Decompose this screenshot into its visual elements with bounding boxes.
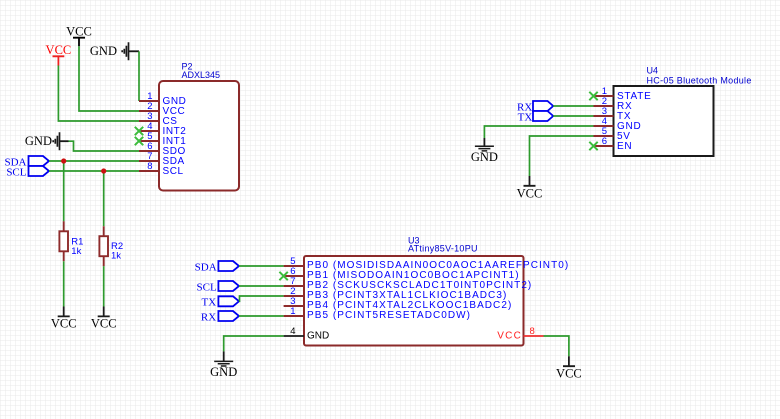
wire junction to R1 [63,161,65,221]
wire SDA to P2 pin7 [49,160,139,162]
junction on SCL [101,168,106,173]
power flag VCC (under R1) [51,307,77,331]
svg-text:GND: GND [25,134,52,148]
wire VCC(red) to P2 pin3 [58,66,139,122]
svg-text:GND: GND [90,44,117,58]
resistor R1 1k [59,221,83,261]
svg-text:VCC: VCC [497,330,522,341]
wire U3 pin8 to VCC [544,336,569,356]
power flag VCC (under R2) [91,307,117,331]
wire R1 to VCC [63,261,65,306]
power flag VCC (red) [46,43,72,66]
svg-text:SCL: SCL [197,281,217,293]
svg-text:HC-05 Bluetooth Module: HC-05 Bluetooth Module [647,76,752,86]
svg-text:PB5 (PCINT5RESETADC0DW): PB5 (PCINT5RESETADC0DW) [307,310,471,321]
svg-text:VCC: VCC [51,317,77,331]
svg-text:GND: GND [307,330,329,341]
svg-text:VCC: VCC [66,24,92,38]
svg-text:1: 1 [290,306,295,317]
svg-text:6: 6 [602,136,607,147]
netflag TX (U4) [518,111,554,123]
no-connect X on P2 pin4 [135,127,143,135]
wire U3 pin4 to GND [224,336,284,351]
svg-text:4: 4 [290,326,295,337]
netflag SCL [6,166,49,178]
power flag VCC (under U4 pin5) [517,176,543,200]
wire SCL to P2 pin8 [49,170,139,172]
netflag RX (U3) [201,311,239,323]
wire RX to U3 pin1 [239,315,284,317]
power flag VCC (under U3 pin8) [556,356,582,380]
svg-text:TX: TX [518,111,533,123]
wire GND(top) to P2 pin1 [138,51,140,101]
no-connect X on U4 pin1 [589,92,597,100]
pin 4 stub (black) [284,335,304,337]
svg-text:1k: 1k [71,246,81,257]
svg-text:SCL: SCL [6,166,26,178]
wire U4 pin4 to GND [484,126,593,138]
svg-text:VCC: VCC [46,43,72,57]
no-connect X on U4 pin6 [589,142,597,150]
svg-text:VCC: VCC [556,367,582,381]
IC P2 ADXL345 [139,62,239,191]
pin 8 stub (red) [524,335,544,337]
svg-text:EN: EN [617,141,632,152]
svg-text:TX: TX [202,296,217,308]
netflag TX (U3) [202,296,239,308]
wire RX to U4 pin2 [553,105,593,107]
no-connect X on P2 pin5 [135,137,143,145]
svg-text:VCC: VCC [91,317,117,331]
svg-text:1k: 1k [111,251,121,262]
svg-text:ADXL345: ADXL345 [182,70,221,80]
svg-text:8: 8 [530,326,535,337]
junction on SDA [61,158,66,163]
svg-text:GND: GND [210,365,237,379]
IC U3 ATtiny85V-10PU [284,236,570,346]
wire R2 to VCC [103,266,105,306]
power flag VCC (black, top) [66,24,92,46]
netflag SDA [4,156,49,168]
wire SDA to U3 pin5 [239,265,284,267]
wire GND to P2 pin6 SDO [69,141,140,151]
wire junction to R2 [103,171,105,226]
wire U4 pin5 to VCC [530,136,594,176]
IC U4 HC-05 Bluetooth Module [594,66,752,157]
netflag SDA (U3) [195,261,239,273]
netflag SCL (U3) [197,281,239,293]
svg-text:GND: GND [471,150,498,164]
svg-text:SCL: SCL [163,166,184,177]
wire TX to U3 pin2 [239,296,284,301]
ground GND (under U4 pin4) [471,138,498,164]
ground GND (mid-left, rotated earth) [25,132,69,150]
resistor R2 1k [99,226,123,266]
svg-text:U4: U4 [647,66,659,76]
wire TX to U4 pin3 [553,115,593,117]
svg-text:8: 8 [147,161,152,172]
ground GND (top, rotated earth) [90,42,139,60]
wire SCL to U3 pin7 [239,285,284,287]
no-connect X on U3 pin6 [279,272,287,280]
svg-text:VCC: VCC [517,186,543,200]
netflag RX (U4) [517,101,553,113]
svg-text:RX: RX [201,311,216,323]
wire VCC(black) to P2 pin2 [79,46,139,111]
ground GND (under U3) [210,351,237,378]
svg-text:SDA: SDA [195,261,217,273]
svg-text:ATtiny85V-10PU: ATtiny85V-10PU [408,244,478,254]
